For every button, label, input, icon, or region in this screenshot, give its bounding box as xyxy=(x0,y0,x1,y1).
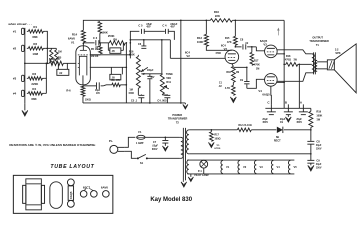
svg-text:150K: 150K xyxy=(128,92,134,95)
capacitor C9p xyxy=(307,154,322,170)
wire: heater rail top xyxy=(187,159,294,161)
svg-text:V5: V5 xyxy=(294,165,298,169)
capacitor C2a (boxed) xyxy=(108,43,123,54)
diode D1 (SE RECT) xyxy=(274,127,283,143)
svg-text:450V: 450V xyxy=(296,121,302,124)
ground: bus end xyxy=(183,103,188,109)
transformer T2 heater winding xyxy=(187,160,189,174)
svg-text:C7: C7 xyxy=(153,140,157,144)
wire: R1/R2 junction to grid line xyxy=(45,31,48,64)
svg-text:6SC7: 6SC7 xyxy=(83,185,91,189)
svg-text:1M: 1M xyxy=(256,67,259,70)
svg-text:POWER: POWER xyxy=(172,113,182,117)
svg-text:100Ω: 100Ω xyxy=(214,137,220,140)
svg-text:.05: .05 xyxy=(111,50,115,53)
resistor R14 (V1 plate load) xyxy=(81,30,85,44)
svg-text:C9: C9 xyxy=(316,158,320,162)
capacitor C2b (boxed) xyxy=(110,67,123,80)
svg-text:1M: 1M xyxy=(236,71,239,74)
speaker cone xyxy=(334,44,356,93)
svg-text:C4 .005: C4 .005 xyxy=(157,98,167,102)
svg-text:1W: 1W xyxy=(316,118,320,121)
wire: cap row mid xyxy=(144,30,165,32)
resistor R15 (to rail) xyxy=(98,21,108,43)
svg-text:47K: 47K xyxy=(227,40,232,44)
cap B terminal xyxy=(285,100,289,108)
svg-text:RESISTORS ARE ½ W, ±5% UNLESS: RESISTORS ARE ½ W, ±5% UNLESS MARKED OTH… xyxy=(9,143,95,147)
input jack J2 xyxy=(13,45,24,51)
wire: grid line to V1 xyxy=(24,63,76,65)
title: Kay Model 830 xyxy=(150,197,192,203)
svg-text:150V: 150V xyxy=(316,167,322,170)
svg-text:C 3: C 3 xyxy=(93,36,98,40)
ground: line cap xyxy=(163,143,169,151)
svg-text:6AQ5: 6AQ5 xyxy=(262,92,270,96)
svg-text:V1: V1 xyxy=(71,40,75,44)
capacitor C2 (cathode bypass) xyxy=(95,82,101,95)
wire: V1 plate node xyxy=(83,42,94,44)
wire: B+ rail xyxy=(83,20,284,30)
svg-text:10µF: 10µF xyxy=(95,90,101,92)
svg-text:3.2: 3.2 xyxy=(335,47,339,51)
transformer T1 core xyxy=(314,52,316,74)
wire: V4 plate to OT xyxy=(277,73,312,82)
capacitor C6b (wiper) xyxy=(147,74,152,104)
svg-text:22K: 22K xyxy=(215,14,220,18)
capacitor C3 (coupling) xyxy=(93,36,99,49)
svg-text:R-6: R-6 xyxy=(66,88,71,92)
capacitor C8 (tone bottom 2) xyxy=(157,94,170,103)
svg-text:100µF: 100µF xyxy=(147,70,154,72)
svg-text:TO: TO xyxy=(216,145,219,147)
svg-text:F1: F1 xyxy=(138,130,142,134)
svg-text:Kay Model 830: Kay Model 830 xyxy=(150,197,192,203)
wire: R3/R4 junction riser xyxy=(44,63,47,94)
wire: rail stub tick xyxy=(277,28,280,35)
svg-text:R17: R17 xyxy=(214,133,219,136)
wire: V1 second grid row xyxy=(90,55,127,68)
svg-text:R3: R3 xyxy=(32,72,36,76)
resistor R20 xyxy=(237,124,251,132)
svg-text:6C4: 6C4 xyxy=(221,44,226,48)
svg-text:C8: C8 xyxy=(240,37,244,41)
input jack J4 xyxy=(13,90,24,96)
note: switch annotation xyxy=(8,22,32,26)
svg-text:R19: R19 xyxy=(316,109,321,113)
wire: HV line xyxy=(189,129,311,131)
wire: cap row right drop xyxy=(168,31,174,39)
resistor R16 (splitter) xyxy=(226,64,239,83)
potentiometer R11 (tone) xyxy=(160,73,173,95)
wire: coupling drop xyxy=(125,43,127,103)
svg-text:68K: 68K xyxy=(31,97,37,101)
cap C terminal xyxy=(267,100,271,108)
heater filament V5 xyxy=(288,161,297,174)
capacitor C1 (boxed) xyxy=(57,63,69,75)
resistor R4 xyxy=(27,87,44,101)
svg-text:510K R8: 510K R8 xyxy=(49,57,60,61)
svg-text:100K: 100K xyxy=(316,114,322,117)
wire: screen stubs xyxy=(277,53,285,83)
wire: cathode row xyxy=(83,84,127,86)
transformer T2 label xyxy=(168,113,188,125)
capacitor C10 (line) xyxy=(152,137,169,151)
heater filament V4 xyxy=(271,161,280,174)
resistor R5 xyxy=(50,48,63,63)
resistor R18 (screen/CT) xyxy=(283,55,298,66)
svg-text:R15: R15 xyxy=(225,37,230,40)
wire: V3 plate to OT xyxy=(277,50,312,54)
svg-text:4.7K: 4.7K xyxy=(225,87,230,90)
svg-text:V1: V1 xyxy=(226,165,230,169)
potentiometer R10 (volume) xyxy=(128,50,140,95)
svg-text:R4: R4 xyxy=(32,87,36,91)
capacitor C6 xyxy=(138,40,147,49)
svg-text:47K: 47K xyxy=(116,79,121,82)
svg-text:600V: 600V xyxy=(152,148,158,151)
svg-text:when closed - - -: when closed - - - xyxy=(8,22,32,26)
svg-text:OUTPUT: OUTPUT xyxy=(312,35,323,39)
svg-text:10V: 10V xyxy=(96,93,101,95)
ground: splitter tail xyxy=(230,97,236,103)
svg-text:V3: V3 xyxy=(260,165,264,169)
wire: cap row top xyxy=(130,31,140,58)
wire: fuse to T2 xyxy=(145,137,179,139)
wire: AC neutral xyxy=(124,151,137,158)
transformer T2 primary xyxy=(179,137,183,158)
resistor R15b (phase inv plate) xyxy=(225,20,237,48)
svg-text:470K: 470K xyxy=(215,52,221,55)
svg-text:220K: 220K xyxy=(31,82,39,86)
svg-text:R9: R9 xyxy=(113,37,117,41)
capacitor C9 (splitter) xyxy=(233,67,249,89)
resistor R17b (hum) xyxy=(210,130,221,142)
svg-text:100Ω: 100Ω xyxy=(85,99,91,102)
svg-text:10M: 10M xyxy=(32,52,38,56)
heater filament V2 xyxy=(238,161,247,174)
resistor R17 (V3 grid leak) xyxy=(250,46,260,70)
capacitor C7 (tone bottom 1) xyxy=(131,94,145,103)
triode V1 envelope xyxy=(68,32,91,85)
svg-text:.02: .02 xyxy=(59,72,63,75)
svg-text:150V: 150V xyxy=(316,148,322,151)
svg-text:C6: C6 xyxy=(138,42,142,46)
svg-text:100K: 100K xyxy=(101,30,107,34)
capacitor C9C xyxy=(296,108,308,124)
svg-text:50K: 50K xyxy=(166,76,171,80)
svg-text:45V: 45V xyxy=(170,26,175,29)
wire: to V4 grid xyxy=(247,79,265,88)
resistor R6 (cathode) xyxy=(66,86,90,102)
svg-text:6AQ5: 6AQ5 xyxy=(69,191,73,199)
capacitor C8p xyxy=(307,130,322,154)
wire: bottom ground bus xyxy=(83,96,185,103)
plug PL-1 xyxy=(109,139,125,154)
capacitor C9A xyxy=(262,108,276,124)
wire: tone pot bottom xyxy=(162,93,167,96)
svg-text:PL.: PL. xyxy=(109,139,114,143)
ground: C9p xyxy=(308,165,314,171)
svg-text:470Ω: 470Ω xyxy=(285,58,291,61)
V1 plate xyxy=(80,43,87,51)
svg-text:R2: R2 xyxy=(33,42,37,46)
input jack J1 xyxy=(13,28,24,34)
ground: hum resistor xyxy=(209,142,221,150)
transformer T2 core xyxy=(183,128,185,181)
wire: wiper link xyxy=(141,70,162,79)
V1 grid (dashes) xyxy=(78,54,89,56)
wire: rail drop x180 xyxy=(180,20,182,104)
wire: V2 plate to node xyxy=(206,46,232,55)
wire: drop to V2 grid xyxy=(169,40,171,59)
svg-text:#1: #1 xyxy=(13,30,17,34)
capacitor C5 xyxy=(162,23,178,34)
layout: 6V6 socket xyxy=(101,185,109,197)
svg-text:6AV6: 6AV6 xyxy=(101,185,108,189)
capacitor C8c (coupling to output) xyxy=(235,37,256,49)
wire: filter bus xyxy=(265,107,311,109)
svg-text:R18: R18 xyxy=(226,71,231,74)
wire: secondary to speaker xyxy=(317,62,327,69)
wire: B+ drop to screens xyxy=(283,20,285,108)
svg-text:C 5: C 5 xyxy=(138,23,143,27)
svg-text:TONE: TONE xyxy=(166,73,173,76)
svg-text:P-1: P-1 xyxy=(198,170,203,173)
svg-text:HTRS: HTRS xyxy=(214,148,220,150)
svg-text:45V: 45V xyxy=(146,26,151,29)
svg-text:C 4: C 4 xyxy=(162,23,167,27)
tube layout box xyxy=(13,175,113,213)
ground: T2 center tap xyxy=(181,180,186,187)
transformer T2 HV secondary xyxy=(187,130,190,154)
svg-text:V4: V4 xyxy=(277,165,281,169)
layout: power transformer xyxy=(23,179,45,210)
resistor R13 (V2 plate load) xyxy=(197,20,209,47)
tube layout title xyxy=(50,164,94,170)
wire: to V3 grid xyxy=(256,47,264,51)
transformer T1 primary xyxy=(312,54,315,73)
svg-text:R17: R17 xyxy=(254,59,259,62)
svg-text:R1: R1 xyxy=(33,25,37,29)
wire: drop to tone pot xyxy=(161,40,163,74)
cap A terminal xyxy=(300,100,304,108)
capacitor C9B xyxy=(280,108,293,124)
wire: OT center tap xyxy=(298,64,312,66)
svg-text:C8: C8 xyxy=(316,139,320,143)
svg-text:#4: #4 xyxy=(13,92,17,96)
svg-text:TUBE LAYOUT: TUBE LAYOUT xyxy=(50,164,94,170)
resistor R7b (feedback) xyxy=(101,79,127,87)
svg-text:R11: R11 xyxy=(166,80,171,84)
wire: tone row xyxy=(130,39,170,41)
wire: HV return xyxy=(189,153,311,155)
svg-text:TRANSFORMER: TRANSFORMER xyxy=(309,40,329,43)
pentode V4 xyxy=(258,74,277,97)
svg-text:#3: #3 xyxy=(13,77,17,81)
capacitor C4 xyxy=(138,23,152,34)
wire: heater rail bottom xyxy=(187,173,294,175)
R11 wiper arrow xyxy=(164,85,169,89)
svg-text:100K: 100K xyxy=(197,40,203,44)
R10 wiper arrow xyxy=(141,67,148,72)
pilot lamp P-1 xyxy=(194,160,209,177)
resistor R6 (parallel) xyxy=(47,48,61,63)
wire: AC hot xyxy=(124,137,135,147)
svg-text:V2: V2 xyxy=(243,165,247,169)
svg-text:PILOT LAMP: PILOT LAMP xyxy=(194,174,209,177)
resistor R8 xyxy=(49,57,64,66)
svg-text:SPK: SPK xyxy=(335,51,340,55)
wire: V2 grid line xyxy=(170,50,225,58)
triode V2 xyxy=(221,44,239,64)
svg-text:470K: 470K xyxy=(254,63,260,66)
resistor R19 xyxy=(309,108,323,130)
heater filament V1 xyxy=(221,161,230,174)
transformer T1 label xyxy=(309,35,329,47)
svg-text:V3: V3 xyxy=(263,43,267,47)
svg-text:C5 .1: C5 .1 xyxy=(131,98,138,102)
wire: input ground bus xyxy=(24,28,26,104)
wire: screen node drop xyxy=(298,64,300,108)
V1 cathode xyxy=(82,75,84,85)
ground: heater winding xyxy=(188,174,193,181)
note: resistor tolerance xyxy=(9,143,95,147)
resistor R16 (rail dropper) xyxy=(210,10,232,22)
svg-text:1 AMP: 1 AMP xyxy=(136,142,144,145)
ground: filter caps xyxy=(286,115,292,122)
svg-text:#2: #2 xyxy=(13,47,17,51)
layout: rectifier strip xyxy=(67,179,74,207)
input jack J3 xyxy=(13,75,24,81)
svg-text:68K: 68K xyxy=(32,35,38,39)
svg-text:S1: S1 xyxy=(140,161,144,165)
speaker voice coil xyxy=(327,60,334,70)
layout: 6SC7 sockets xyxy=(80,185,97,197)
heater filament V3 xyxy=(254,161,263,174)
svg-text:V2: V2 xyxy=(186,54,190,58)
transformer T1 secondary xyxy=(315,60,317,71)
svg-text:R12 2A 10Ω: R12 2A 10Ω xyxy=(238,124,251,127)
pentode V3 xyxy=(260,39,277,58)
wire: V4 cathode drop xyxy=(270,86,273,104)
resistor R7 (grid leak) xyxy=(91,43,102,58)
resistor R3 xyxy=(27,72,44,86)
layout: filter can xyxy=(50,182,63,209)
resistor R1 xyxy=(27,25,45,39)
wire: grid return line xyxy=(90,54,131,56)
switch S1 xyxy=(137,154,180,165)
svg-text:R5 1M: R5 1M xyxy=(91,48,98,51)
ground: input bus ground xyxy=(22,103,28,116)
resistor R2 xyxy=(27,42,45,56)
svg-text:RECT: RECT xyxy=(274,139,281,142)
resistor R9 xyxy=(99,34,127,45)
svg-text:TRANSFORMER: TRANSFORMER xyxy=(168,118,188,121)
V1 inner structure xyxy=(78,56,87,75)
svg-text:450V: 450V xyxy=(262,121,268,124)
resistor R21 (tail) xyxy=(218,81,235,95)
svg-text:R13: R13 xyxy=(197,36,203,40)
fuse F1 xyxy=(136,130,146,145)
